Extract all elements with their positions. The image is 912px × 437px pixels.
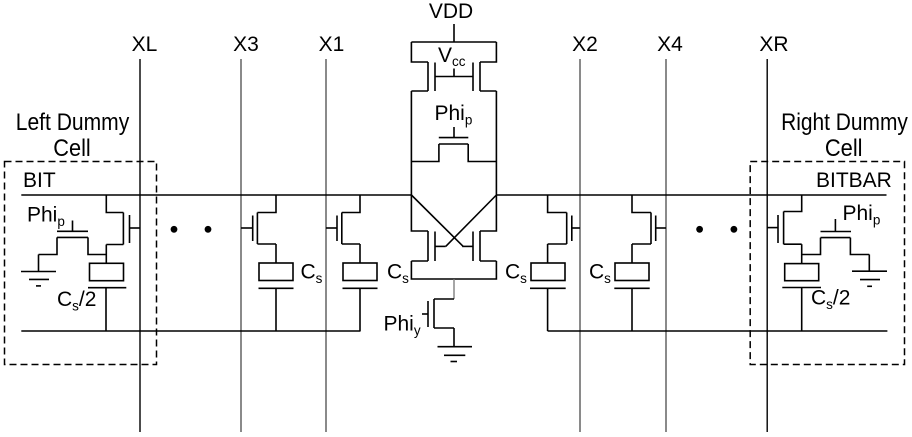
wire X1 cap to plate line — [359, 288, 361, 331]
transistor X2 access — [548, 195, 580, 244]
svg-text:Cell: Cell — [53, 135, 91, 162]
right dummy cell dashed box — [750, 162, 904, 365]
transistor X1 access — [326, 195, 360, 244]
wire cross couple diagonal left — [411, 195, 463, 246]
word line X1 — [325, 59, 327, 432]
svg-text:X2: X2 — [572, 33, 598, 56]
ground left dummy — [21, 255, 56, 286]
svg-text:BIT: BIT — [23, 169, 56, 192]
transistor X4 access — [632, 195, 666, 244]
wire BIT line — [21, 194, 411, 196]
transistor right dummy access — [767, 195, 802, 244]
transistor X3 access — [241, 195, 276, 244]
wire cross couple diagonal right — [446, 195, 497, 246]
svg-text:X1: X1 — [319, 33, 345, 56]
capacitor Cs X3 — [259, 263, 294, 288]
wire precharge top bar — [411, 41, 496, 43]
capacitor Cs X2 — [530, 263, 566, 288]
ground right dummy — [852, 255, 887, 287]
node BIT dots — [171, 226, 178, 233]
svg-text:Cell: Cell — [825, 135, 863, 162]
wire BITBAR line — [496, 194, 886, 196]
svg-text:X4: X4 — [657, 33, 683, 56]
word line X3 — [240, 59, 242, 432]
svg-text:Right Dummy: Right Dummy — [781, 109, 908, 136]
svg-text:XR: XR — [759, 33, 788, 56]
transistor Phip right dummy — [802, 219, 870, 255]
wire plate line right — [548, 330, 888, 332]
capacitor Cs/2 left — [88, 263, 126, 287]
wire right cap to plate line — [801, 288, 803, 332]
wire left cap to plate line — [105, 288, 107, 331]
wire X2 cap to plate line — [547, 288, 549, 331]
svg-text:Left Dummy: Left Dummy — [16, 109, 130, 136]
transistor Phiy — [422, 299, 454, 328]
left dummy cell dashed box — [5, 162, 157, 365]
wire X2 storage — [547, 244, 549, 263]
wire X3 storage — [275, 244, 277, 263]
wire VDD lead — [453, 24, 455, 42]
node BITBAR dots — [696, 226, 703, 233]
transistor left dummy access — [106, 195, 140, 245]
wire left storage node — [105, 245, 107, 264]
transistor Phip left dummy — [39, 221, 107, 255]
wire Vcc gate tie — [435, 69, 473, 77]
wire Phiy to ground — [453, 328, 455, 347]
word line XR — [766, 59, 768, 432]
transistor Vcc right — [473, 42, 496, 195]
word line X4 — [665, 59, 667, 432]
wire X3 cap to plate line — [275, 288, 277, 331]
word line X2 — [579, 59, 581, 432]
capacitor Cs/2 right — [782, 264, 821, 288]
ground Phiy — [438, 347, 473, 362]
svg-text:X3: X3 — [233, 33, 259, 56]
svg-text:XL: XL — [132, 33, 158, 56]
capacitor Cs X4 — [614, 263, 649, 288]
wire X4 storage — [631, 244, 633, 263]
wire X4 cap to plate line — [631, 288, 633, 331]
wire plate line left — [21, 330, 360, 332]
transistor Phip equalize — [411, 127, 496, 162]
wire right storage node — [801, 244, 803, 263]
svg-text:VDD: VDD — [429, 0, 473, 23]
wire sense tail — [453, 279, 455, 299]
svg-text:BITBAR: BITBAR — [816, 169, 892, 192]
transistor sense left cross-coupled — [411, 195, 445, 261]
transistor Vcc left — [411, 42, 435, 195]
transistor sense right cross-coupled — [462, 195, 496, 261]
wire X1 storage — [359, 244, 361, 263]
word line XL — [139, 59, 141, 432]
wire sense common source tub — [411, 261, 496, 279]
capacitor Cs X1 — [343, 263, 378, 288]
